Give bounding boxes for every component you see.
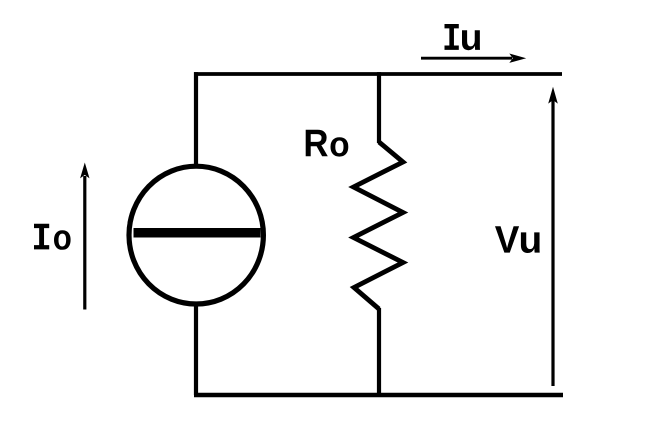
arrow Io (left, pointing up)	[80, 163, 89, 310]
wire top horizontal	[194, 72, 562, 76]
current source bar	[134, 228, 261, 238]
wire left vertical (current source to bottom)	[194, 306, 198, 395]
label Io	[34, 224, 71, 250]
wire bottom horizontal	[194, 393, 563, 397]
wire resistor bottom lead	[377, 308, 381, 395]
label Vu	[495, 226, 540, 253]
arrow Vu (right, pointing up)	[548, 87, 558, 386]
arrow Iu (top right, pointing right)	[421, 54, 526, 63]
label Iu	[444, 24, 480, 50]
label Ro	[306, 130, 349, 157]
current source Io circle	[129, 166, 263, 304]
wire left vertical (top, node to current source)	[194, 72, 198, 164]
wire resistor top lead	[377, 72, 381, 143]
resistor Ro zigzag	[354, 142, 404, 309]
